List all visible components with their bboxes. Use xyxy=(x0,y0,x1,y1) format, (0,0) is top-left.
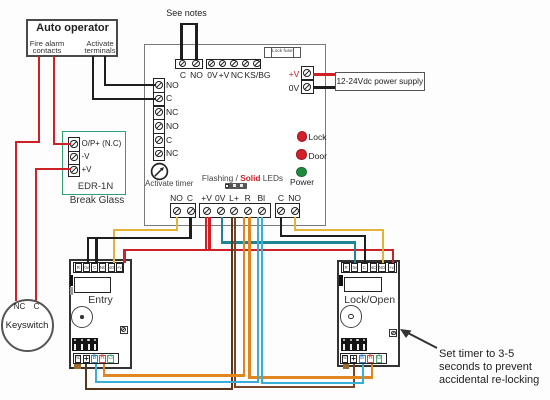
label See notes xyxy=(166,8,207,18)
wire see-notes right leg into screw (patch) xyxy=(195,57,198,60)
screw top strip2 pin 3 xyxy=(230,60,238,68)
Entry timer screw xyxy=(120,326,128,334)
label Break Glass xyxy=(70,195,124,206)
LED Door (red) xyxy=(296,149,307,160)
wire cyan Bl down right xyxy=(261,217,263,385)
label Lock fuse xyxy=(272,49,293,54)
label NO xyxy=(166,80,179,90)
wire red break-glass +V across xyxy=(35,168,71,170)
Entry bottom terminal G xyxy=(107,355,114,363)
terminal strip 0V +V NC KS/BG (top) xyxy=(206,59,262,69)
Entry terminal 0v xyxy=(83,263,90,271)
label 0V xyxy=(207,70,217,80)
label R xyxy=(245,193,251,203)
Lock/Open keypad buttons xyxy=(341,338,367,351)
bottom terminal strip C NO (lock) xyxy=(275,203,300,218)
lock fuse right cap xyxy=(293,47,294,58)
label C xyxy=(166,135,172,145)
label NO xyxy=(288,193,301,203)
Lock/Open timer screw xyxy=(389,329,397,337)
wire red into Lock/Open +v xyxy=(392,250,394,263)
label KS/BG xyxy=(245,70,271,80)
Lock/Open terminal +v xyxy=(388,263,395,271)
wire see-notes top xyxy=(180,23,198,26)
label NO xyxy=(170,193,183,203)
EDR-1N break glass box (green) xyxy=(62,131,126,195)
main controller board xyxy=(144,44,326,226)
wire red break-glass +V to keyswitch C xyxy=(35,169,37,301)
power supply box xyxy=(335,72,426,92)
wire brown L+ across to Lock/Open + xyxy=(235,386,355,388)
wire red fire-alarm NC to keyswitch xyxy=(15,142,17,301)
wire red +V down b xyxy=(208,217,210,252)
Lock/Open display window xyxy=(344,277,382,292)
wire cyan into Entry B xyxy=(95,364,97,384)
keyswitch circle xyxy=(1,299,54,352)
screw L+ xyxy=(230,207,238,215)
label +V xyxy=(201,193,212,203)
activate timer dial xyxy=(150,162,169,181)
Lock/Open top terminal strip xyxy=(341,262,397,274)
Lock/Open terminal 0v xyxy=(351,263,358,271)
wire black activate terminal 1 down xyxy=(104,56,106,86)
screw NO xyxy=(192,60,200,68)
wire black C2 across to Lock/Open xyxy=(280,235,366,237)
label L+ xyxy=(229,193,239,203)
wire orange into Lock/Open R xyxy=(371,364,373,379)
wire red fire-alarm C down xyxy=(53,56,55,145)
Lock/Open bottom terminal RD xyxy=(342,355,349,363)
label NO xyxy=(190,70,203,80)
Entry top terminal strip xyxy=(73,262,124,274)
wire teal 0V across to Lock/Open xyxy=(221,241,356,243)
Entry bottom terminal R xyxy=(99,355,106,363)
auto operator box xyxy=(26,19,118,57)
Entry keypad buttons xyxy=(72,338,98,351)
wire black into board NO screw (patch) xyxy=(151,84,156,86)
wire cyan Bl across to Entry B xyxy=(95,381,258,383)
wire orange R across to Lock/Open R xyxy=(250,376,374,378)
wire yellow into Entry NO xyxy=(113,230,115,263)
Lock/Open terminal C xyxy=(361,263,368,271)
Entry terminal R xyxy=(75,263,82,271)
wire orange into Entry R xyxy=(103,364,105,377)
Lock/Open bottom terminal strip xyxy=(340,353,387,365)
wire black C2 down xyxy=(280,217,282,238)
wire red fire-alarm NC across xyxy=(15,141,40,143)
terminal block +V/0V xyxy=(301,66,314,94)
Entry bottom terminal RD xyxy=(75,355,82,363)
label Fire alarm contacts xyxy=(30,40,65,55)
screw NO xyxy=(173,207,181,215)
wire see-notes right leg xyxy=(195,23,198,60)
Lock/Open RD wire stub xyxy=(343,364,350,369)
wire red into EDR +V screw (patch) xyxy=(62,168,70,170)
label Door xyxy=(309,151,327,161)
screw +V xyxy=(303,69,311,77)
wire red +V to power supply xyxy=(313,73,336,75)
wire red +V down a xyxy=(205,217,207,252)
Entry RD wire stub xyxy=(74,364,80,369)
label Lock xyxy=(309,132,327,142)
wire black into Lock/Open C xyxy=(364,236,366,263)
label Entry xyxy=(88,294,113,306)
screw 0V xyxy=(217,207,225,215)
wire orange R across to Entry R xyxy=(103,374,245,376)
Entry terminal C xyxy=(91,263,98,271)
screw left strip NO 1 xyxy=(155,81,163,89)
screw left strip C 5 xyxy=(155,136,163,144)
wire cyan Bl down left xyxy=(257,217,259,384)
label NO xyxy=(166,121,179,131)
Lock/Open bottom terminal R xyxy=(367,355,374,363)
label 0V xyxy=(289,83,299,93)
label Activate timer xyxy=(145,179,193,188)
LED Lock (red) xyxy=(297,131,308,142)
Entry keypad box xyxy=(69,259,132,369)
wire cyan Bl across to Lock/Open B xyxy=(262,382,364,384)
wire black into board C screw (patch) xyxy=(151,98,156,100)
label +V xyxy=(82,165,92,174)
wire see-notes left leg into screw (patch) xyxy=(180,57,183,60)
Entry speaker xyxy=(71,306,93,328)
Lock/Open side connector xyxy=(339,275,343,286)
wire red fire-alarm NC down xyxy=(38,56,40,143)
Entry terminal NO xyxy=(108,263,115,271)
left terminal strip (relay outputs) xyxy=(153,78,165,161)
wire red +V rail xyxy=(123,249,394,251)
wire black activate terminal 2 down xyxy=(92,56,94,100)
screw top strip2 pin 2 xyxy=(219,60,227,68)
bottom terminal strip +V 0V L+ R Bl xyxy=(199,203,271,218)
Entry terminal +v xyxy=(116,263,123,271)
wire yellow NO down xyxy=(176,217,178,232)
label O/P+ (N.C) xyxy=(82,139,122,148)
wire brown L+ across to Entry + xyxy=(85,388,232,390)
wire black activate terminal 1 to board NO xyxy=(104,84,154,86)
wire yellow NO2 down xyxy=(294,217,296,231)
label C xyxy=(166,93,172,103)
wire brown L+ down left xyxy=(231,217,233,390)
label C xyxy=(180,70,186,80)
wire teal into Lock/Open 0v xyxy=(354,243,356,264)
wire red into Entry +v xyxy=(123,250,125,263)
wire cyan into Lock/Open B xyxy=(362,364,364,385)
label NC xyxy=(166,107,178,117)
screw C xyxy=(179,60,187,68)
screw 0V xyxy=(303,83,311,91)
label NC xyxy=(166,148,178,158)
label C xyxy=(34,302,40,311)
LED strip icon xyxy=(225,183,248,189)
screw left strip NC 6 xyxy=(155,150,163,158)
wire red into EDR O/P+ screw (patch) xyxy=(62,143,70,145)
wire black into Entry 0v xyxy=(87,238,89,263)
Entry bottom terminal B xyxy=(91,355,98,363)
label +V xyxy=(219,70,230,80)
Lock/Open speaker xyxy=(340,305,362,327)
screw C2 xyxy=(277,207,285,215)
Entry display window xyxy=(74,277,111,293)
label Activate terminals xyxy=(84,40,115,55)
screw Bl xyxy=(258,207,266,215)
screw left strip NC 3 xyxy=(155,108,163,116)
label Set timer note xyxy=(439,348,514,360)
screw EDR +V xyxy=(70,166,77,173)
lock fuse left cap xyxy=(271,47,272,58)
label Power xyxy=(290,177,314,187)
label 12-24Vdc power supply xyxy=(336,76,423,86)
screw +V xyxy=(203,207,211,215)
wire orange R down right xyxy=(248,217,250,379)
wire brown into Lock/Open + xyxy=(353,364,355,389)
label Auto operator xyxy=(36,22,109,34)
screw left strip C 2 xyxy=(155,95,163,103)
Lock/Open bottom terminal G xyxy=(376,355,383,363)
wire orange R down left xyxy=(243,217,245,377)
EDR terminal strip xyxy=(68,137,79,177)
Lock/Open keypad box xyxy=(337,260,400,367)
label +V (red) xyxy=(289,69,300,79)
label Keyswitch xyxy=(6,320,49,331)
screw NO2 xyxy=(291,207,299,215)
Lock/Open bottom terminal + xyxy=(350,355,357,363)
wire yellow NO across to Entry xyxy=(113,229,178,231)
screw left strip NO 4 xyxy=(155,122,163,130)
label C xyxy=(278,193,284,203)
arrow to timer screw xyxy=(398,324,443,352)
wire red fire-alarm C to break-glass O/P+ xyxy=(53,143,71,145)
lock fuse body xyxy=(264,47,301,58)
label Bl xyxy=(258,193,266,203)
wire black into Entry C xyxy=(95,238,97,263)
screw C xyxy=(187,207,195,215)
screw R xyxy=(244,207,252,215)
Entry bottom terminal strip xyxy=(73,353,120,365)
screw top strip2 pin 1 xyxy=(208,60,216,68)
screw EDR O/P+ (N.C) xyxy=(70,140,77,147)
label Flashing / Solid LEDs xyxy=(202,173,283,183)
wire brown into Entry + xyxy=(85,364,87,390)
Lock/Open bottom terminal B xyxy=(359,355,366,363)
Lock/Open terminal NO xyxy=(378,263,385,271)
wire black activate terminal 2 to board C xyxy=(92,98,154,100)
Lock/Open terminal R xyxy=(343,263,350,271)
screw top strip2 pin 4 xyxy=(242,60,250,68)
LED Power (green) xyxy=(296,167,307,178)
wire yellow into Lock/Open NO xyxy=(382,230,384,263)
label -V xyxy=(82,152,90,161)
Lock/Open terminal NC xyxy=(370,263,377,271)
wire black 0V to power supply xyxy=(313,86,336,88)
wire see-notes left leg xyxy=(180,23,183,60)
wire yellow NO2 across to Lock/Open xyxy=(294,229,384,231)
wire teal 0V down xyxy=(221,217,223,244)
label EDR-1N xyxy=(78,181,113,192)
label Lock/Open xyxy=(344,294,395,306)
label C xyxy=(187,193,193,203)
terminal strip C NO (top) xyxy=(175,59,203,69)
label NC xyxy=(14,302,26,311)
Entry terminal NC xyxy=(99,263,106,271)
bottom terminal strip NO C xyxy=(170,203,196,218)
screw EDR -V xyxy=(70,153,77,160)
Entry bottom terminal + xyxy=(83,355,90,363)
screw top strip2 pin 5 xyxy=(253,60,261,68)
Entry side connector xyxy=(70,275,73,286)
label 0V xyxy=(215,193,225,203)
wire black C across to Entry xyxy=(87,237,192,239)
label NC xyxy=(231,70,243,80)
wire black C down xyxy=(189,217,191,240)
wire brown L+ down right xyxy=(234,217,236,389)
